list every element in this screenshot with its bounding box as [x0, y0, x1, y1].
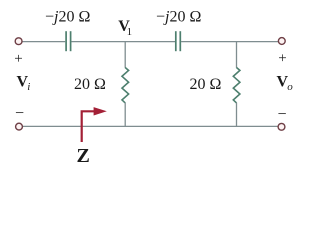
wire top: input terminal to capacitor C1 — [22, 41, 65, 43]
wire: resistor R2 to bottom rail — [236, 103, 238, 127]
wire: resistor R1 to bottom rail — [124, 103, 126, 127]
svg-text:−j20 Ω: −j20 Ω — [45, 8, 90, 25]
impedance Z arrow — [82, 111, 96, 142]
svg-text:−j20 Ω: −j20 Ω — [156, 8, 201, 25]
svg-text:+: + — [278, 51, 286, 67]
terminal bottom-left — [16, 123, 23, 130]
svg-text:+: + — [14, 51, 22, 67]
wire bottom rail — [23, 125, 278, 127]
svg-text:1: 1 — [127, 26, 133, 38]
terminal bottom-right — [278, 123, 285, 130]
wire top: capacitor C1 to capacitor C2 (through node V1) — [71, 41, 175, 43]
terminal top-right — [278, 38, 285, 45]
capacitor C1 (-j20 ohm) plates — [66, 31, 71, 51]
svg-text:i: i — [27, 81, 30, 93]
wire: node V1 drop to resistor R1 — [124, 42, 126, 68]
wire top: capacitor C2 to output terminal — [181, 41, 278, 43]
resistor R1 (20 ohm) zigzag — [122, 68, 129, 103]
wire: top rail drop to resistor R2 — [236, 42, 238, 68]
capacitor C2 (-j20 ohm) plates — [176, 31, 181, 51]
svg-text:−: − — [278, 106, 287, 123]
resistor R2 (20 ohm) zigzag — [233, 68, 240, 103]
svg-text:−: − — [15, 105, 24, 122]
svg-text:o: o — [287, 81, 293, 93]
terminal top-left — [15, 38, 22, 45]
svg-text:Z: Z — [77, 145, 90, 165]
svg-text:20 Ω: 20 Ω — [190, 76, 222, 93]
svg-text:20 Ω: 20 Ω — [74, 76, 106, 93]
